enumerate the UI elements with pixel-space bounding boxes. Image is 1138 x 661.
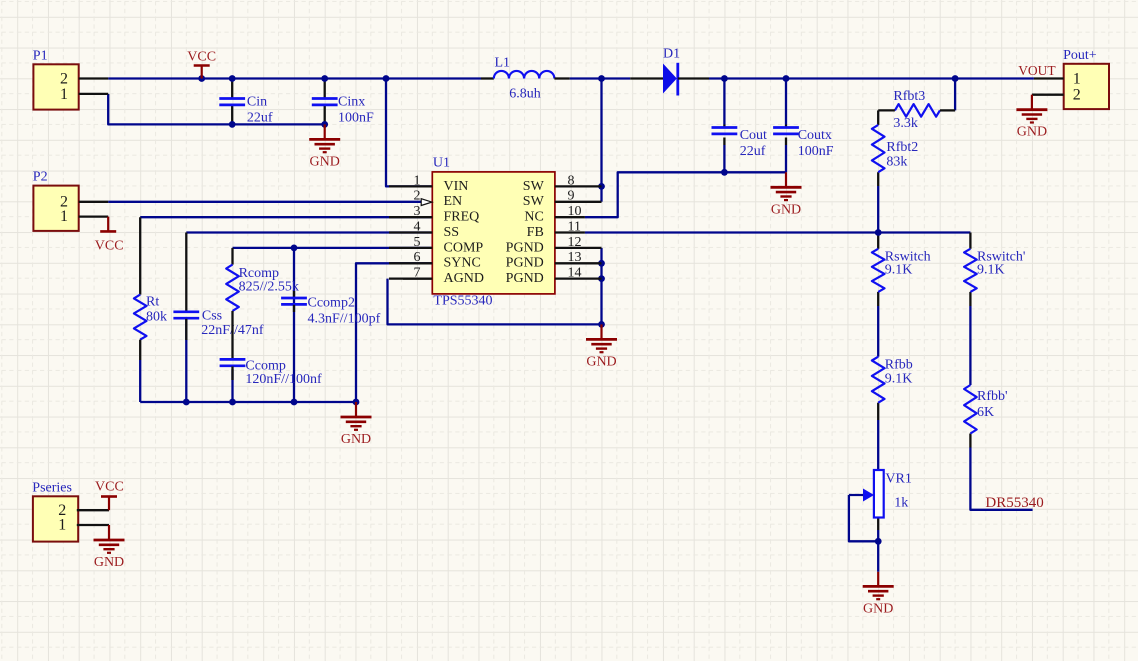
svg-text:8: 8: [568, 173, 575, 188]
svg-text:3: 3: [414, 204, 421, 219]
svg-text:10: 10: [568, 204, 582, 219]
svg-text:VOUT: VOUT: [1018, 63, 1056, 78]
svg-text:SS: SS: [444, 225, 460, 240]
svg-text:5: 5: [414, 235, 421, 250]
svg-text:1k: 1k: [894, 495, 908, 510]
svg-text:PGND: PGND: [506, 240, 544, 255]
svg-text:Coutx: Coutx: [798, 128, 832, 143]
svg-text:Rfbt3: Rfbt3: [893, 89, 925, 104]
svg-text:COMP: COMP: [444, 240, 484, 255]
svg-text:Pout+: Pout+: [1063, 48, 1097, 63]
svg-text:TPS55340: TPS55340: [433, 294, 492, 309]
svg-text:EN: EN: [444, 194, 463, 209]
svg-text:9.1K: 9.1K: [977, 262, 1005, 277]
svg-text:Rfbb: Rfbb: [885, 357, 913, 372]
svg-text:Pseries: Pseries: [32, 480, 72, 495]
svg-text:FREQ: FREQ: [444, 210, 480, 225]
svg-text:100nF: 100nF: [338, 110, 374, 125]
svg-text:825//2.55k: 825//2.55k: [239, 280, 299, 295]
svg-text:12: 12: [568, 235, 582, 250]
svg-text:1: 1: [414, 173, 421, 188]
svg-text:9.1K: 9.1K: [885, 372, 913, 387]
svg-text:VIN: VIN: [444, 179, 469, 194]
svg-text:1: 1: [58, 517, 66, 534]
svg-text:U1: U1: [433, 155, 450, 170]
svg-text:VR1: VR1: [885, 471, 911, 486]
svg-text:1: 1: [60, 86, 68, 103]
svg-text:11: 11: [568, 219, 581, 234]
svg-text:1: 1: [60, 208, 68, 225]
svg-text:DR55340: DR55340: [985, 495, 1043, 511]
svg-text:SW: SW: [523, 179, 545, 194]
svg-text:L1: L1: [495, 56, 511, 71]
svg-text:PGND: PGND: [506, 256, 544, 271]
svg-text:Rfbt2: Rfbt2: [886, 140, 918, 155]
svg-text:VCC: VCC: [95, 239, 124, 254]
svg-text:AGND: AGND: [444, 271, 484, 286]
svg-text:P2: P2: [33, 170, 48, 185]
svg-text:1: 1: [1073, 70, 1081, 87]
svg-text:NC: NC: [524, 210, 543, 225]
svg-text:Cin: Cin: [247, 95, 267, 110]
svg-text:GND: GND: [310, 154, 340, 169]
svg-text:13: 13: [568, 250, 582, 265]
svg-text:Rfbb': Rfbb': [977, 389, 1008, 404]
svg-text:D1: D1: [663, 46, 680, 61]
svg-text:4.3nF//100pf: 4.3nF//100pf: [308, 311, 381, 326]
svg-text:GND: GND: [771, 202, 801, 217]
svg-text:6: 6: [414, 250, 421, 265]
svg-text:6K: 6K: [977, 405, 994, 420]
svg-text:GND: GND: [586, 354, 616, 369]
svg-text:22uf: 22uf: [740, 144, 766, 159]
svg-text:22uf: 22uf: [247, 110, 273, 125]
svg-text:Cout: Cout: [740, 128, 767, 143]
svg-text:3.3k: 3.3k: [893, 116, 918, 131]
svg-text:7: 7: [414, 266, 421, 281]
svg-text:SYNC: SYNC: [444, 256, 481, 271]
svg-text:Rt: Rt: [146, 295, 159, 310]
svg-text:GND: GND: [94, 555, 124, 570]
svg-text:GND: GND: [1017, 125, 1047, 140]
svg-text:Cinx: Cinx: [338, 95, 365, 110]
svg-text:GND: GND: [863, 601, 893, 616]
svg-text:Ccomp2: Ccomp2: [308, 296, 355, 311]
svg-text:2: 2: [1073, 86, 1081, 103]
svg-text:4: 4: [414, 219, 421, 234]
svg-text:6.8uh: 6.8uh: [509, 86, 541, 101]
svg-text:100nF: 100nF: [798, 144, 834, 159]
svg-text:SW: SW: [523, 194, 545, 209]
svg-text:VCC: VCC: [187, 49, 216, 64]
svg-text:120nF//100nf: 120nF//100nf: [245, 372, 322, 387]
svg-text:Css: Css: [202, 309, 222, 324]
svg-text:9.1K: 9.1K: [885, 262, 913, 277]
svg-text:FB: FB: [527, 225, 544, 240]
svg-text:83k: 83k: [886, 155, 907, 170]
svg-text:14: 14: [568, 266, 582, 281]
svg-text:2: 2: [414, 189, 421, 204]
svg-text:9: 9: [568, 189, 575, 204]
svg-text:PGND: PGND: [506, 271, 544, 286]
svg-text:GND: GND: [341, 432, 371, 447]
svg-text:P1: P1: [33, 48, 48, 63]
svg-text:VCC: VCC: [95, 480, 124, 495]
svg-text:80k: 80k: [146, 310, 167, 325]
